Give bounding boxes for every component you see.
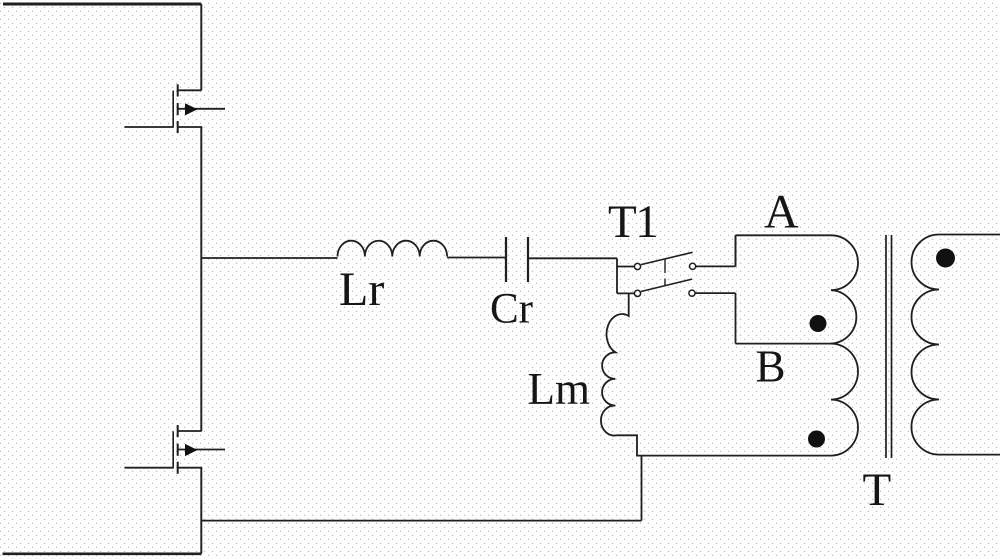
svg-text:T: T bbox=[863, 464, 892, 516]
svg-text:Cr: Cr bbox=[490, 286, 533, 333]
svg-text:Lm: Lm bbox=[528, 364, 591, 414]
svg-text:B: B bbox=[756, 342, 786, 392]
svg-text:A: A bbox=[764, 186, 799, 239]
svg-text:T1: T1 bbox=[608, 196, 657, 248]
svg-text:Lr: Lr bbox=[339, 263, 384, 316]
